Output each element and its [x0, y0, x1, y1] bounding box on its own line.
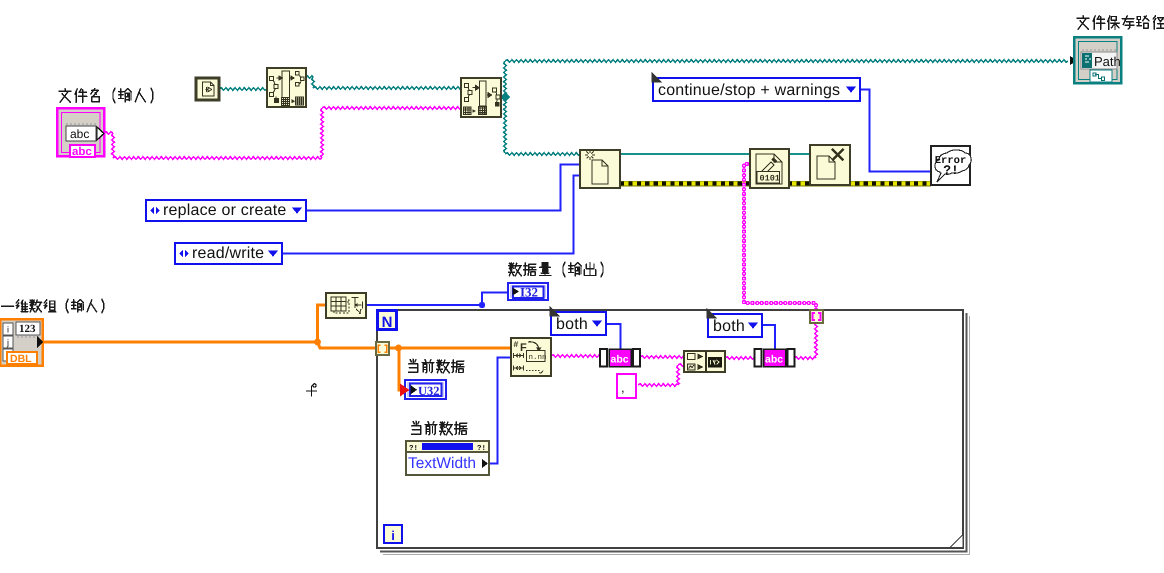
- loop resize corner: [950, 535, 963, 548]
- label: 文件保存路径: [1077, 16, 1164, 30]
- strip path node: [267, 68, 306, 107]
- wire: both2 to trim2: [762, 325, 775, 350]
- label: 当前数据 (TextWidth): [412, 421, 468, 435]
- svg-text:continue/stop + warnings: continue/stop + warnings: [658, 82, 840, 99]
- svg-text:read/write: read/write: [192, 245, 264, 262]
- wire: current VI path to Strip Path: [219, 88, 267, 91]
- wire: trim2 to loop output tunnel: [794, 357, 816, 360]
- label: 一维数组（输入）: [2, 299, 104, 312]
- wire: concatenate to trim2: [725, 357, 755, 360]
- svg-text:abc: abc: [765, 354, 783, 366]
- index boxes i j k: [3, 323, 13, 335]
- wire: array size to N / I32: [366, 304, 482, 306]
- label: 数据量（输出）: [509, 262, 603, 276]
- wire: both1 to trim1: [606, 324, 620, 350]
- path glyph tab: [1090, 70, 1112, 82]
- path indicator: [1074, 37, 1122, 84]
- junction: path wire diamond: [500, 92, 510, 102]
- N count terminal: [378, 311, 397, 330]
- enum: both 1: [551, 312, 606, 335]
- svg-text:DBL: DBL: [10, 353, 32, 365]
- svg-text:abc: abc: [72, 146, 92, 158]
- open/create/replace file node: [580, 150, 620, 188]
- wire: stripped path to Build Path: [305, 76, 313, 79]
- svg-text:both: both: [556, 316, 588, 333]
- svg-text:0101: 0101: [760, 174, 780, 184]
- enum: both 2: [708, 314, 762, 337]
- wire: file refnum: [620, 153, 810, 155]
- current VI path constant: [196, 78, 219, 100]
- abc display inside control: [66, 123, 96, 125]
- wire: comma constant to concatenate: [638, 384, 678, 387]
- build path node: [461, 78, 501, 117]
- abc type tab: [70, 145, 95, 157]
- svg-text:abc: abc: [611, 354, 629, 366]
- arrow: input into Path indicator: [1070, 56, 1078, 65]
- trim whitespace node 1: [600, 349, 640, 367]
- output tunnel: [810, 310, 823, 323]
- label: 文件名（输入）: [59, 88, 153, 102]
- I32 indicator: [508, 283, 548, 300]
- wire: formatted string to trim1: [551, 355, 600, 358]
- comma string constant: [617, 374, 636, 398]
- close file node: [810, 145, 850, 185]
- svg-text:TextWidth: TextWidth: [408, 455, 476, 472]
- i iteration terminal: [384, 525, 402, 543]
- TextWidth property node: [406, 441, 489, 475]
- 123 element box: [16, 322, 40, 335]
- coercion arrow into U32: [400, 384, 410, 397]
- input tunnel: [376, 342, 389, 355]
- concatenate strings node: [684, 351, 725, 372]
- string control (file name): [57, 108, 105, 157]
- svg-text:replace or create: replace or create: [163, 202, 286, 219]
- wire: element orange inside loop: [389, 347, 511, 350]
- wire: string array beads: [744, 164, 816, 310]
- enum: continue/stop + warnings: [653, 78, 860, 101]
- svg-text:i: i: [7, 325, 9, 335]
- svg-text:N: N: [382, 314, 393, 331]
- svg-text:n.nn: n.nn: [529, 354, 547, 362]
- svg-text:abc: abc: [70, 127, 89, 141]
- 1D array control (DBL): [0, 319, 43, 366]
- svg-text:?!: ?!: [943, 163, 959, 178]
- svg-text:I32: I32: [520, 285, 538, 300]
- svg-text:Path: Path: [1094, 54, 1121, 69]
- wire: read/write to open node: [282, 176, 580, 254]
- number to fractional string node: [511, 338, 551, 376]
- wire: trim1 to concatenate: [640, 356, 684, 359]
- wire: continue/stop to error handler: [860, 90, 931, 172]
- label: 当前数据 (U32): [409, 359, 465, 373]
- wire: error cluster: [620, 181, 931, 187]
- svg-text:?!: ?!: [477, 444, 486, 453]
- DBL tab: [7, 352, 37, 364]
- enum: read/write: [175, 243, 282, 264]
- trim whitespace node 2: [755, 349, 795, 367]
- svg-text:U32: U32: [418, 384, 440, 398]
- for loop border: [377, 310, 963, 548]
- array size node: [326, 293, 366, 318]
- svg-text:123: 123: [19, 323, 36, 335]
- wire: 1D array orange: [43, 305, 326, 342]
- svg-text:?!: ?!: [409, 444, 418, 453]
- svg-text:both: both: [713, 318, 745, 335]
- U32 indicator: [405, 380, 446, 399]
- write to text file node: [750, 149, 789, 188]
- svg-text:,: ,: [621, 380, 625, 395]
- simple error handler node: [931, 146, 970, 185]
- wire: built path trunk: [504, 61, 507, 153]
- mouse cursor: [306, 384, 317, 397]
- wire: TextWidth to format width input: [489, 358, 511, 464]
- svg-text:i: i: [391, 528, 395, 543]
- wire: replace or create to open node: [306, 165, 580, 211]
- svg-text:j: j: [6, 338, 9, 348]
- enum: replace or create: [146, 200, 306, 221]
- wire: file name string control to Build Path: [104, 132, 113, 135]
- svg-text:#: #: [514, 339, 519, 349]
